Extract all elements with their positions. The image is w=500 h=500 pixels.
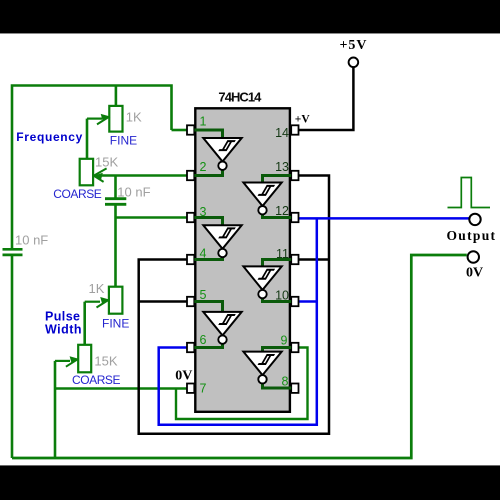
- terminal 0V: [468, 251, 479, 262]
- inverter U1d bubble: [258, 290, 266, 298]
- svg-text:5: 5: [200, 288, 207, 302]
- svg-text:+V: +V: [295, 113, 311, 125]
- inverter U1e bubble: [218, 335, 226, 343]
- label Pulse Width: [45, 310, 82, 337]
- wire: C1 bottom down left edge: [11, 255, 14, 458]
- svg-text:74HC14: 74HC14: [218, 89, 262, 104]
- svg-text:2: 2: [200, 160, 207, 174]
- inverter U1b bubble: [258, 206, 266, 214]
- pin 9: [291, 343, 298, 352]
- inverter U1e internal output wire (pin6): [194, 344, 222, 348]
- inverter U1d internal input wire (pin11): [263, 260, 292, 266]
- svg-text:0V: 0V: [175, 369, 192, 384]
- inverter U1b triangle: [243, 183, 281, 207]
- letterbox bar bottom: [0, 465, 500, 466]
- svg-text:15K: 15K: [94, 354, 117, 369]
- inverter U1d internal output wire (pin10): [263, 298, 292, 302]
- wire: VR1 wiper to VR2 top: [86, 119, 89, 160]
- svg-text:+5V: +5V: [340, 38, 367, 53]
- inverter U1e triangle: [203, 312, 241, 336]
- wire: blue vertical output bus: [159, 218, 317, 424]
- svg-text:COARSE: COARSE: [53, 187, 102, 201]
- wire: pin 5 branch: [139, 300, 187, 303]
- wiper arrow VR3: [85, 297, 110, 308]
- svg-text:FINE: FINE: [110, 133, 137, 147]
- wire: pin 2 to VR2 wiper: [101, 174, 188, 177]
- pin 5: [187, 297, 194, 306]
- inverter U1b internal input wire (pin13): [263, 176, 292, 183]
- svg-text:COARSE: COARSE: [72, 373, 121, 387]
- inverter U1f hysteresis symbol: [258, 355, 274, 364]
- resistor VR1 1K FINE (frequency): [109, 106, 122, 132]
- pin 8: [291, 384, 298, 393]
- wire: blue output net pin12 to Output terminal: [299, 217, 469, 220]
- wire: pin 10 branch: [299, 300, 317, 303]
- wire: pin 9 ground loop: [176, 348, 308, 420]
- pulse waveform symbol: [448, 178, 491, 208]
- pin 11: [291, 255, 298, 264]
- wire: black pin4 to pin5/pin13/pin11 net: [139, 176, 329, 434]
- inverter U1e internal input wire (pin5): [194, 302, 222, 312]
- svg-text:7: 7: [200, 381, 207, 395]
- terminal Output: [469, 214, 480, 225]
- svg-text:FINE: FINE: [102, 317, 129, 331]
- svg-text:12: 12: [275, 204, 289, 218]
- svg-text:0V: 0V: [466, 266, 483, 281]
- wire: C2 bottom to VR3 top with pin 3 branch: [114, 204, 117, 287]
- svg-text:1K: 1K: [126, 110, 142, 125]
- capacitor C1 10nF (left): [3, 249, 23, 255]
- svg-text:10 nF: 10 nF: [15, 233, 48, 248]
- inverter U1a hysteresis symbol: [219, 141, 235, 150]
- inverter U1a internal output wire (pin2): [194, 170, 222, 176]
- pin 2: [187, 171, 194, 180]
- wire: C2 top terminal: [114, 176, 117, 199]
- wiper arrow VR1: [87, 114, 110, 125]
- svg-text:Width: Width: [45, 323, 82, 337]
- inverter U1a internal input wire (pin1): [194, 130, 222, 138]
- svg-text:14: 14: [275, 126, 289, 140]
- inverter U1e hysteresis symbol: [219, 315, 235, 324]
- pin 7: [187, 384, 194, 393]
- wire: green 0V bottom rail: [12, 255, 467, 458]
- inverter U1d hysteresis symbol: [258, 270, 274, 279]
- pin 3: [187, 213, 194, 222]
- inverter U1a bubble: [218, 162, 226, 170]
- wire: black +5V supply to pin 14: [299, 67, 353, 130]
- wire: VR3 wiper to VR4 top: [83, 302, 86, 346]
- inverter U1f triangle: [243, 352, 281, 376]
- inverter U1c hysteresis symbol: [219, 228, 235, 237]
- letterbox bar top: [0, 0, 500, 33]
- capacitor C2 10nF: [105, 199, 126, 205]
- resistor VR2 15K COARSE (frequency): [80, 159, 93, 186]
- inverter U1c triangle: [203, 225, 241, 249]
- inverter U1b hysteresis symbol: [258, 186, 274, 195]
- pin boxes right: pin 14: [291, 125, 298, 134]
- IC U1 74HC14 body: [195, 108, 290, 412]
- inverter U1c internal output wire (pin4): [194, 257, 222, 259]
- inverter U1c internal input wire (pin3): [194, 218, 222, 225]
- svg-text:Pulse: Pulse: [45, 310, 80, 324]
- wire: R1 top terminal: [115, 86, 118, 107]
- svg-text:1: 1: [200, 115, 207, 129]
- inverter U1f bubble: [258, 375, 266, 383]
- wire: 0V to pin 7: [55, 387, 187, 390]
- wire: pin 3 branch: [116, 216, 188, 219]
- inverter U1c bubble: [218, 249, 226, 257]
- svg-text:9: 9: [281, 334, 288, 348]
- wire: green top rail (pin1/R1 node): [12, 86, 172, 249]
- inverter U1a triangle: [203, 138, 241, 162]
- wire: pin 1 stub: [172, 129, 188, 132]
- svg-text:13: 13: [275, 160, 289, 174]
- inverter U1b internal output wire (pin12): [263, 214, 292, 217]
- inverter U1d triangle: [243, 266, 281, 290]
- inverter U1f internal input wire (pin9): [263, 348, 292, 352]
- terminal +5V: [349, 58, 359, 68]
- resistor VR4 15K COARSE (pulse width): [78, 345, 91, 373]
- wiper arrow VR2: [94, 168, 107, 182]
- wire: VR4 wiper down to 0V rail: [54, 361, 57, 458]
- inverter U1f internal output wire (pin8): [263, 383, 292, 388]
- svg-text:10 nF: 10 nF: [117, 184, 150, 199]
- svg-text:15K: 15K: [95, 155, 118, 170]
- pin 12: [291, 213, 298, 222]
- pin boxes left: pin 1: [187, 125, 194, 134]
- svg-text:1K: 1K: [89, 281, 105, 296]
- pin 13: [291, 171, 298, 180]
- svg-text:Frequency: Frequency: [16, 130, 82, 144]
- pin 6: [187, 343, 194, 352]
- svg-text:6: 6: [200, 333, 207, 347]
- resistor VR3 1K FINE (pulse width): [109, 287, 123, 314]
- svg-text:8: 8: [282, 374, 289, 388]
- svg-text:Output: Output: [447, 228, 496, 243]
- wiper arrow VR4: [55, 356, 79, 367]
- wire: pin 11 branch: [299, 258, 329, 261]
- pin 4: [187, 255, 194, 264]
- pin 10: [291, 297, 298, 306]
